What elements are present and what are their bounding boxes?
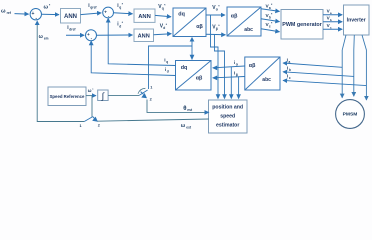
wire theta up into T1 [191,40,193,46]
svg-text:2: 2 [98,124,100,128]
wire phase a current tap to abc-ab block [283,63,342,67]
wire S2 to ANN2 [114,13,133,14]
wire integrator to switch SW1 [108,94,139,96]
wire speed reference down to switch SW2 [91,96,93,117]
node omega_est label [181,123,192,129]
svg-text:dq: dq [178,11,185,17]
wire i_alpha T3 to T4 [213,66,245,68]
svg-text:αβ: αβ [231,13,238,19]
svg-text:αβ: αβ [196,24,203,30]
node V_b label [327,16,332,23]
ANN speed controller U1 [61,9,81,24]
svg-text:a: a [330,11,332,15]
ANN q-axis current controller U2 [134,9,155,22]
node omega_s label [88,87,95,93]
svg-text:qref: qref [90,6,97,10]
svg-text:em: em [44,36,49,40]
wire ANN2 to dq-ab block [155,15,171,16]
wire i_q feedback to summer S2 [108,20,175,66]
wire PWM to inverter phase b [323,21,342,23]
wire T2 to PWM phase c [261,29,280,32]
svg-text:position and: position and [212,104,243,110]
node V_c label [327,23,332,30]
svg-text:abc: abc [244,27,253,33]
svg-text:ω: ω [1,9,6,15]
wire PWM to inverter phase c [323,28,342,30]
svg-text:*: * [49,4,51,8]
wire T2 to PWM phase b [261,19,280,22]
wire i_dref to summer S3 [66,34,84,36]
switch SW2 pin 1 label [80,124,82,128]
node V_q* label [158,4,166,11]
node i_c label [287,73,291,80]
wire phase c current tap to abc-ab block [283,80,366,85]
wire omega_ref to summer S1 [15,13,29,16]
wire omega_est from estimator to switch SW2 [97,119,209,121]
dq to alpha-beta transform block T1 [173,8,206,37]
wire T1 to ab-abc block lower [206,33,225,36]
wire i_d feedback to summer S3 [91,42,175,75]
svg-text:Speed Reference: Speed Reference [50,94,85,99]
svg-text:2: 2 [150,98,152,102]
inverter block U5 [344,5,370,35]
svg-text:+: + [32,11,35,17]
integrator block U8 [98,90,108,101]
svg-text:PMSM: PMSM [343,112,358,118]
V_alpha tap to estimator [211,15,219,96]
svg-text:*: * [271,13,273,17]
svg-text:αβ: αβ [196,76,203,82]
node i_d label [165,67,169,74]
svg-text:estimator: estimator [216,122,239,128]
svg-text:Inverter: Inverter [347,17,366,23]
svg-text:ω: ω [181,123,186,129]
node i_beta label [234,70,238,77]
node V_beta* label [212,24,220,31]
svg-text:*: * [122,2,124,6]
position and speed estimator block U6 [209,100,248,133]
svg-text:ANN: ANN [138,14,151,20]
svg-text:ω: ω [44,5,49,11]
abc to alpha-beta transform block T3 [245,57,280,90]
node i_q label [164,58,168,65]
svg-text:*: * [164,4,166,8]
svg-text:*: * [166,23,168,27]
node i_d* label [117,21,123,28]
svg-text:ω: ω [39,34,44,40]
switch SW1 theta selector [138,88,148,98]
svg-text:dq: dq [181,65,188,71]
svg-text:ANN: ANN [64,14,77,20]
node omega_em label [39,34,49,41]
svg-text:dref: dref [69,28,76,32]
speed reference block U7 [48,87,86,106]
node theta wire to transforms [149,46,193,89]
ANN d-axis current controller U3 [134,29,154,42]
alpha-beta to dq transform block T4 [176,61,212,91]
svg-text:q: q [166,60,168,64]
node V_b* label [266,13,274,20]
node i_alpha label [234,60,239,67]
node i_dref label [67,25,76,32]
node V_d* label [160,23,168,30]
wire phase b current tap to abc-ab block [283,72,354,77]
node V_c* label [266,22,274,29]
wire T1 to ab-abc block [206,14,225,16]
svg-text:*: * [218,5,220,9]
wire T2 to PWM phase a [261,9,280,12]
node V_alpha* label [212,5,220,12]
svg-text:θ: θ [183,106,186,112]
i_alpha tap to estimator [230,67,232,96]
alpha-beta to abc transform block T2 [227,7,261,36]
wire speed feedback to summer S1 [37,23,84,122]
svg-text:abc: abc [262,77,271,83]
node V_a label [327,8,332,15]
wire ANN1 to summer S2 [81,13,102,15]
summing junction S1 [30,9,41,22]
node theta_est label [183,106,193,112]
node V_a* label [266,3,274,10]
switch SW2 pin 2 label [98,124,100,128]
wire theta down into T4 [191,46,193,57]
wire inverter phase b to PMSM [353,35,356,96]
summing junction S2 [103,7,114,19]
svg-text:c: c [289,76,291,80]
wire inverter phase a to PMSM [342,35,346,98]
svg-text:est: est [186,126,192,130]
svg-text:*: * [271,22,273,26]
node omega_ref label [1,9,12,16]
wire inverter phase c to PMSM [362,35,366,100]
wire i_beta T3 to T4 [213,77,245,78]
summing junction S3 [86,30,97,42]
wire ANN3 to dq-ab block [154,34,172,35]
node i_a label [287,57,291,64]
svg-text:1: 1 [80,124,82,128]
switch SW2 omega selector [84,116,98,121]
svg-text:ANN: ANN [138,34,150,40]
wire S1 to ANN1 [42,13,59,15]
node omega* label [44,4,51,11]
svg-text:d: d [167,70,169,74]
node i_q* label [117,2,123,9]
PMSM motor M1 [336,100,365,129]
node i_b label [287,66,291,73]
svg-text:αβ: αβ [249,63,256,69]
svg-text:est: est [187,108,193,112]
svg-text:1: 1 [150,86,152,90]
svg-text:PWM generator: PWM generator [282,22,322,28]
wire S3 to ANN3 [97,34,133,36]
svg-text:ref: ref [7,11,12,15]
svg-text:+: + [87,33,90,38]
svg-text:*: * [271,3,273,7]
svg-text:speed: speed [220,113,235,119]
svg-text:ω: ω [88,88,92,93]
svg-text:*: * [92,87,94,91]
wire theta_est from estimator to switch SW1 [147,100,205,113]
switch SW1 pin 1 label [150,86,152,90]
node i_qref label [88,3,97,10]
svg-text:+: + [104,10,107,15]
switch SW1 pin 2 label [150,98,152,102]
svg-text:*: * [218,24,220,28]
PWM generator block U4 [281,10,323,40]
svg-text:b: b [289,68,291,72]
i_beta tap to estimator [238,77,240,96]
wire speed reference to integrator [86,95,96,97]
wire PWM to inverter phase a [323,14,342,16]
svg-text:*: * [122,21,124,25]
V_beta tap to estimator [215,35,225,96]
